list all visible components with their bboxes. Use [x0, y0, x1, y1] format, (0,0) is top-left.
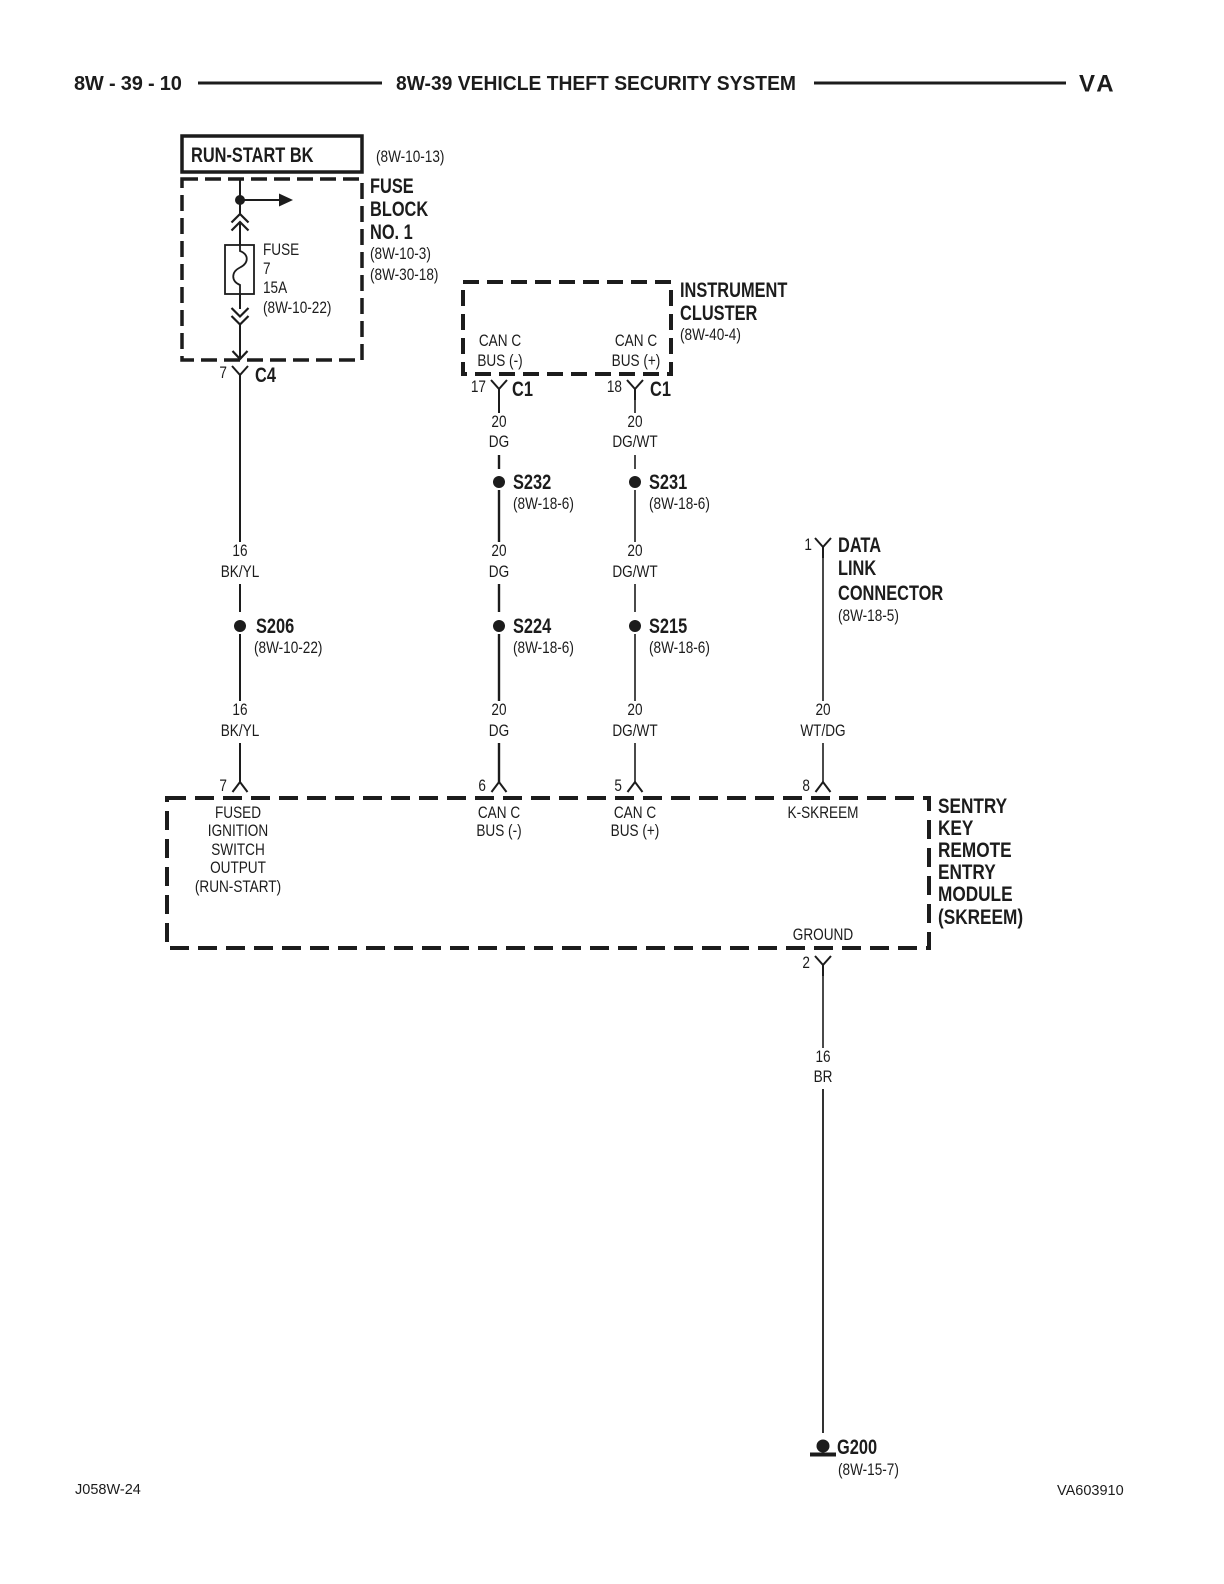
wire dash	[634, 455, 636, 469]
svg-text:IGNITION: IGNITION	[208, 822, 268, 841]
svg-text:DG: DG	[489, 433, 509, 452]
svg-text:1: 1	[804, 536, 812, 555]
svg-text:CLUSTER: CLUSTER	[680, 301, 758, 324]
svg-text:20: 20	[627, 413, 642, 432]
svg-text:BUS (-): BUS (-)	[476, 822, 521, 841]
svg-text:(8W-18-6): (8W-18-6)	[649, 639, 710, 658]
svg-text:RUN-START BK: RUN-START BK	[191, 143, 314, 166]
header right rule	[814, 82, 1066, 85]
wire to SKREEM	[239, 743, 241, 782]
wire dash to S224	[498, 584, 500, 612]
power feed box RUN-START BK	[182, 136, 362, 172]
wire to SKREEM	[498, 743, 500, 782]
svg-text:REMOTE: REMOTE	[938, 840, 1012, 863]
wire to SKREEM	[634, 743, 636, 782]
wire to box edge	[239, 324, 241, 358]
svg-text:2: 2	[802, 954, 810, 973]
svg-text:G200: G200	[837, 1435, 877, 1458]
svg-text:BR: BR	[814, 1068, 833, 1087]
wire C: C1 to label	[634, 400, 636, 413]
svg-text:CAN C: CAN C	[479, 332, 521, 351]
svg-text:(8W-30-18): (8W-30-18)	[370, 266, 438, 285]
svg-text:15A: 15A	[263, 279, 288, 298]
svg-text:FUSED: FUSED	[215, 804, 261, 823]
svg-text:20: 20	[627, 701, 642, 720]
svg-text:20: 20	[627, 542, 642, 561]
svg-text:(8W-10-22): (8W-10-22)	[254, 639, 322, 658]
svg-text:16: 16	[232, 542, 247, 561]
svg-text:S224: S224	[513, 614, 552, 637]
svg-text:NO. 1: NO. 1	[370, 220, 413, 243]
svg-text:S206: S206	[256, 614, 294, 637]
svg-text:KEY: KEY	[938, 818, 974, 841]
splice S231	[629, 476, 641, 488]
svg-text:(8W-18-6): (8W-18-6)	[513, 639, 574, 658]
svg-text:SWITCH: SWITCH	[211, 841, 265, 860]
wire below S215	[634, 634, 636, 701]
svg-text:LINK: LINK	[838, 556, 877, 579]
svg-text:(8W-18-5): (8W-18-5)	[838, 607, 899, 626]
svg-text:7: 7	[219, 364, 227, 383]
svg-text:INSTRUMENT: INSTRUMENT	[680, 278, 788, 301]
svg-text:CONNECTOR: CONNECTOR	[838, 581, 944, 604]
svg-text:DG/WT: DG/WT	[612, 722, 658, 741]
svg-text:(SKREEM): (SKREEM)	[938, 907, 1023, 930]
wire from dashed top to junction	[239, 179, 241, 214]
svg-text:16: 16	[232, 701, 247, 720]
wire below S224	[498, 634, 500, 701]
svg-text:DG: DG	[489, 722, 509, 741]
svg-text:20: 20	[491, 542, 506, 561]
svg-text:MODULE: MODULE	[938, 884, 1013, 907]
svg-text:S232: S232	[513, 470, 551, 493]
svg-text:BK/YL: BK/YL	[221, 563, 260, 582]
splice S232	[493, 476, 505, 488]
svg-text:C1: C1	[650, 377, 671, 400]
svg-text:SENTRY: SENTRY	[938, 796, 1007, 819]
header left rule	[198, 82, 382, 85]
wire below S231	[634, 490, 636, 542]
wire to SKREEM	[822, 743, 824, 782]
svg-text:WT/DG: WT/DG	[800, 722, 845, 741]
svg-text:K-SKREEM: K-SKREEM	[788, 804, 859, 823]
svg-text:CAN C: CAN C	[614, 804, 656, 823]
svg-text:5: 5	[614, 777, 622, 796]
svg-text:FUSE: FUSE	[263, 241, 299, 260]
svg-text:(8W-10-22): (8W-10-22)	[263, 299, 331, 318]
instrument cluster dashed box	[463, 282, 671, 374]
fuse block no.1 dashed box	[182, 179, 362, 360]
wire dash to S215	[634, 584, 636, 612]
svg-text:(8W-15-7): (8W-15-7)	[838, 1461, 899, 1480]
svg-text:DG/WT: DG/WT	[612, 433, 658, 452]
ground G200 symbol	[817, 1440, 830, 1453]
svg-text:DG/WT: DG/WT	[612, 563, 658, 582]
svg-text:BUS (+): BUS (+)	[612, 352, 661, 371]
svg-text:BK/YL: BK/YL	[221, 722, 260, 741]
wire below S232	[498, 490, 500, 542]
svg-text:18: 18	[607, 378, 622, 397]
svg-text:16: 16	[815, 1048, 830, 1067]
connector chevrons down	[232, 308, 249, 325]
svg-text:20: 20	[491, 413, 506, 432]
wire below S206	[239, 634, 241, 701]
svg-text:(8W-18-6): (8W-18-6)	[513, 495, 574, 514]
arrowhead at box edge	[233, 351, 248, 359]
svg-text:8: 8	[802, 777, 810, 796]
svg-text:8W - 39 - 10: 8W - 39 - 10	[74, 73, 182, 95]
svg-text:BUS (+): BUS (+)	[611, 822, 660, 841]
svg-text:BUS (-): BUS (-)	[477, 352, 522, 371]
long ground wire	[822, 1089, 824, 1433]
svg-text:BLOCK: BLOCK	[370, 197, 429, 220]
svg-text:7: 7	[219, 777, 227, 796]
splice S224	[493, 620, 505, 632]
wire A: C4 to label	[239, 386, 241, 542]
svg-text:7: 7	[263, 260, 271, 279]
wire to label	[822, 976, 824, 1048]
wire D down	[822, 558, 824, 701]
svg-text:CAN C: CAN C	[615, 332, 657, 351]
svg-text:J058W-24: J058W-24	[75, 1482, 141, 1498]
svg-text:C1: C1	[512, 377, 533, 400]
svg-text:C4: C4	[255, 363, 276, 386]
SKREEM module dashed box	[167, 798, 929, 948]
svg-text:GROUND: GROUND	[793, 926, 853, 945]
svg-text:DG: DG	[489, 563, 509, 582]
svg-text:VA: VA	[1079, 71, 1117, 98]
svg-text:8W-39 VEHICLE THEFT SECURITY S: 8W-39 VEHICLE THEFT SECURITY SYSTEM	[396, 73, 796, 95]
wire fuse to chevrons	[239, 294, 241, 309]
wire dash to splice	[239, 584, 241, 612]
svg-text:VA603910: VA603910	[1057, 1483, 1124, 1499]
junction node	[235, 195, 245, 205]
splice S215	[629, 620, 641, 632]
svg-text:(8W-40-4): (8W-40-4)	[680, 326, 741, 345]
fuse F7 body	[225, 245, 254, 294]
svg-text:OUTPUT: OUTPUT	[210, 859, 266, 878]
svg-text:6: 6	[478, 777, 486, 796]
connector chevrons up	[232, 214, 249, 231]
svg-text:S215: S215	[649, 614, 687, 637]
svg-text:CAN C: CAN C	[478, 804, 520, 823]
svg-text:20: 20	[815, 701, 830, 720]
splice S206	[234, 620, 246, 632]
svg-text:ENTRY: ENTRY	[938, 862, 996, 885]
wire chevrons to fuse	[239, 222, 241, 245]
wire dash	[498, 455, 500, 469]
svg-text:20: 20	[491, 701, 506, 720]
svg-text:S231: S231	[649, 470, 687, 493]
svg-text:DATA: DATA	[838, 533, 881, 556]
svg-text:(RUN-START): (RUN-START)	[195, 878, 281, 897]
branch arrow to other circuit	[240, 199, 279, 201]
svg-text:(8W-10-3): (8W-10-3)	[370, 245, 431, 264]
svg-text:(8W-10-13): (8W-10-13)	[376, 148, 444, 167]
svg-text:FUSE: FUSE	[370, 174, 414, 197]
svg-text:17: 17	[471, 378, 486, 397]
wire B: C1 to label	[498, 400, 500, 413]
svg-text:(8W-18-6): (8W-18-6)	[649, 495, 710, 514]
